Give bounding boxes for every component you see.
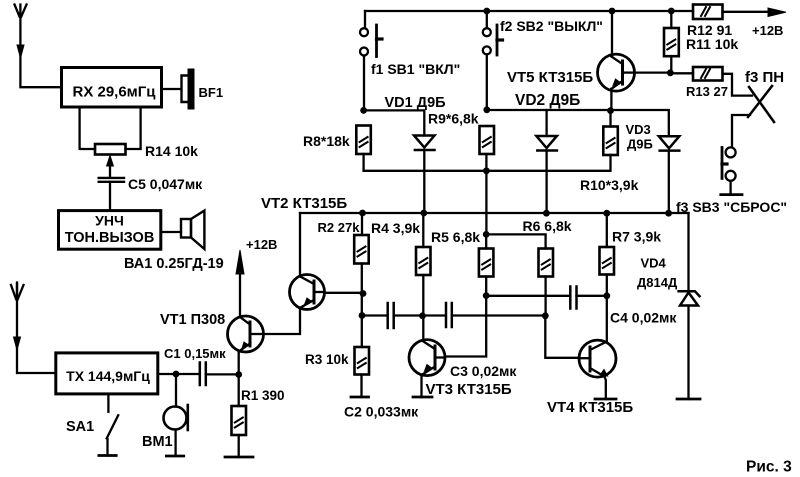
wire rail to R11 (670, 11, 672, 28)
wire VT5 emitter to R10 (609, 111, 611, 127)
resistor R9 (480, 126, 495, 154)
svg-text:R7 3,9k: R7 3,9k (612, 229, 661, 245)
svg-text:VD2 Д9Б: VD2 Д9Б (515, 92, 580, 109)
svg-text:ТХ 144,9мГц: ТХ 144,9мГц (66, 368, 150, 384)
wire R2 top (361, 213, 363, 235)
node VD3 on bus (665, 210, 672, 217)
diode VD1 (414, 136, 435, 151)
rail to SB1 (364, 11, 366, 28)
capacitor C2 (388, 303, 394, 328)
svg-text:f2 SB2 "ВЫКЛ": f2 SB2 "ВЫКЛ" (500, 18, 603, 34)
svg-text:RX 29,6мГц: RX 29,6мГц (72, 84, 156, 101)
wire VT1 base to VT2 (263, 308, 300, 334)
wire VT2 top to +12V bus (299, 213, 301, 276)
antenna WA1 (receiver) (15, 5, 62, 88)
wire R5 down to VT3 base node (485, 234, 487, 295)
push button SB2 (483, 25, 503, 55)
ground (SB3) (721, 193, 742, 196)
resistor R7 (600, 247, 615, 275)
ground (R1) (225, 456, 253, 459)
resistor R1 (232, 406, 247, 435)
node R11/R13 junction (667, 69, 674, 76)
wire R5/R6 crossover (486, 234, 545, 248)
RX receiver box (62, 68, 162, 108)
node R9 on feedback bus (483, 167, 490, 174)
node R1/C1 junction (235, 371, 242, 378)
R14 wiper arrow (107, 156, 114, 178)
svg-text:R9*6,8k: R9*6,8k (428, 111, 479, 127)
ground (VT3) (413, 396, 432, 399)
svg-text:f1 SB1 "ВКЛ": f1 SB1 "ВКЛ" (371, 61, 460, 77)
switch SA1 (107, 394, 119, 456)
resistor R10 (603, 127, 618, 156)
svg-text:VD3: VD3 (626, 122, 651, 137)
svg-text:R5 6,8k: R5 6,8k (431, 229, 480, 245)
ground (VD4) (677, 398, 700, 401)
ground (BM1) (166, 455, 183, 458)
wire R2 to R3 (361, 264, 363, 348)
svg-text:С5 0,047мк: С5 0,047мк (128, 176, 203, 192)
svg-text:С3 0,02мк: С3 0,02мк (450, 363, 517, 379)
wire VT4 emitter to ground (605, 377, 606, 400)
+12V supply arrow (VT1 collector) (236, 250, 244, 317)
earphone BF1 (182, 69, 195, 110)
wire R4 top from bus (422, 213, 424, 247)
node VT5 collector on rail (609, 8, 616, 15)
svg-text:R1 390: R1 390 (241, 388, 285, 403)
node VD1/R4 on bus (420, 210, 427, 217)
node VT2 collector junction (360, 290, 367, 297)
AF amplifier box (УНЧ ТОН.ВЫЗОВ) (59, 211, 161, 250)
wire C4 right (577, 295, 607, 297)
wire VT3 base (445, 296, 486, 357)
resistor R13 (horizontal) (693, 67, 723, 81)
zener diode VD4 (679, 291, 700, 305)
wire VT1 emitter down through R1 (238, 352, 240, 407)
node R8/VD1 junction (360, 107, 367, 114)
svg-text:VT2 КТ315Б: VT2 КТ315Б (261, 195, 347, 212)
svg-text:С2 0,033мк: С2 0,033мк (344, 404, 419, 420)
wire VD1 to bus (423, 150, 425, 213)
svg-text:VT4 КТ315Б: VT4 КТ315Б (547, 399, 633, 416)
wire R8 to feedback bus (362, 154, 364, 171)
wire C4 left (486, 295, 569, 297)
node VT3 collector / cap junction (419, 312, 426, 319)
svg-text:VD4: VD4 (641, 256, 667, 271)
diode VD3 (659, 136, 680, 150)
wire C3 to R6 column (452, 314, 546, 316)
wire RX to BF1 (162, 88, 182, 90)
wire BM1 riser (175, 374, 177, 407)
wire SB3 to ground (729, 181, 731, 195)
capacitor C3 (446, 303, 452, 327)
transistor VT3 (409, 340, 445, 376)
svg-text:Д9Б: Д9Б (627, 137, 653, 152)
transistor VT4 (579, 340, 616, 377)
wire R10 to feedback bus (609, 155, 611, 171)
wire C2 to C3 (394, 314, 446, 316)
node coupling wire junction (359, 312, 366, 319)
wire SB2 down (486, 54, 488, 109)
capacitor C5 (99, 178, 124, 182)
svg-text:R8*18k: R8*18k (303, 133, 350, 149)
node R11 on rail (668, 8, 675, 15)
svg-text:R2 27k: R2 27k (318, 220, 361, 235)
resistor R12 (horizontal) (693, 5, 723, 20)
svg-text:VT3 КТ315Б: VT3 КТ315Б (426, 381, 512, 398)
wire C5 to AF box (109, 182, 111, 211)
top +12V rail (365, 10, 693, 12)
svg-text:ВМ1: ВМ1 (142, 434, 173, 450)
node C4 right junction (603, 292, 610, 299)
wire R7 top from bus (606, 213, 608, 247)
node VT5 emitter junction (607, 107, 614, 114)
wire AF box to BA1 (161, 231, 181, 233)
svg-text:f3 ПН: f3 ПН (745, 69, 784, 86)
diode VD2 (536, 136, 557, 151)
svg-text:BF1: BF1 (199, 85, 224, 100)
wire VD2 top (545, 110, 547, 136)
wire connector to SB3 (732, 115, 750, 147)
svg-text:VT5 КТ315Б: VT5 КТ315Б (507, 69, 593, 86)
svg-text:R3 10k: R3 10k (305, 352, 349, 367)
wire VD3 to bus (668, 151, 670, 214)
svg-text:VT1 П308: VT1 П308 (160, 312, 225, 328)
node VT3 base / C4 junction (483, 292, 490, 299)
wire R11 to node (670, 56, 672, 73)
wire VT5 emitter (610, 89, 612, 111)
+12V rail arrow (768, 8, 786, 17)
svg-text:+12В: +12В (752, 23, 783, 38)
capacitor C4 (570, 287, 576, 309)
wire R3 to ground (360, 375, 362, 398)
resistor R5 (479, 249, 494, 277)
node R6 bottom junction (542, 312, 549, 319)
wire R7 to VT4 collector (606, 275, 608, 342)
svg-text:ТОН.ВЫЗОВ: ТОН.ВЫЗОВ (65, 230, 155, 246)
wire C1 to VT1 emitter column (206, 373, 239, 375)
wire VD2 to bus (545, 151, 547, 214)
node R5/R6 wire junction (483, 231, 490, 238)
microphone BM1 (164, 405, 188, 430)
wire R9 to R5 node (485, 154, 487, 234)
transistor VT5 (598, 54, 635, 91)
resistor R8 (356, 126, 371, 155)
node SB2 on rail (483, 8, 490, 15)
node TX/BM1/C1 junction (173, 371, 180, 378)
connector X (f3) (748, 86, 774, 122)
wire R4 to VT3 collector (422, 275, 424, 341)
wire node to VD1 (364, 110, 425, 135)
wire VT2 collector to R2/R3 column (324, 292, 363, 294)
ground (VT4) (595, 398, 616, 401)
svg-text:УНЧ: УНЧ (95, 213, 124, 229)
wire VT5 base to R11/R13 node (634, 71, 670, 73)
svg-text:R4 3,9k: R4 3,9k (371, 220, 420, 236)
wire SB1 to R8 node (363, 56, 365, 111)
+12V collector bus (300, 212, 689, 214)
svg-text:Рис. 3: Рис. 3 (746, 459, 792, 476)
loudspeaker BA1 (181, 211, 204, 249)
svg-text:VD1 Д9Б: VD1 Д9Б (385, 95, 446, 111)
transistor VT1 (228, 316, 264, 352)
resistor R6 (539, 249, 554, 277)
wire RX right leg to R14 (126, 107, 141, 149)
wire R12 to +12V arrow (723, 11, 771, 13)
svg-text:+12В: +12В (246, 237, 277, 252)
push button SB3 (722, 147, 736, 180)
TX transmitter box (56, 353, 158, 394)
capacitor C1 (200, 363, 206, 386)
resistor R2 (354, 235, 369, 264)
svg-text:С1 0,15мк: С1 0,15мк (164, 346, 226, 361)
ground (SA1) (99, 454, 116, 457)
antenna WA2 (transmitter) (11, 283, 56, 374)
potentiometer R14 (95, 144, 126, 155)
wire VD4 to ground (687, 306, 689, 400)
wire R13 to connector (723, 74, 753, 96)
resistor R11 (664, 28, 679, 56)
wire TX to C1 (158, 373, 199, 375)
node VD2 on bus (543, 210, 550, 217)
svg-text:SA1: SA1 (66, 419, 94, 435)
svg-text:R14 10k: R14 10k (145, 143, 198, 159)
wire VT3 emitter to ground (420, 375, 422, 397)
svg-text:R12 91: R12 91 (687, 22, 732, 38)
wire R1 to ground (238, 435, 240, 457)
resistor R4 (416, 247, 431, 275)
svg-text:С4 0,02мк: С4 0,02мк (610, 310, 677, 326)
wire R6 to VT4 base (545, 277, 579, 358)
node R2 top (359, 210, 366, 217)
node R7 on bus (603, 210, 610, 217)
resistor R3 (355, 347, 370, 375)
transistor VT2 (290, 275, 325, 310)
coupling wire VT2-VT3 (y=315.5) (362, 314, 387, 316)
wire SB2 node to VD3 corner (487, 110, 669, 136)
ground (R3) (351, 396, 369, 399)
rail to SB2 (486, 11, 488, 28)
svg-text:R11 10k: R11 10k (686, 36, 738, 52)
wire RX left leg to R14 (80, 107, 95, 149)
feedback bus (R8-R9-R10) (364, 170, 610, 172)
node R9/VD2 junction (483, 106, 490, 113)
wire BM1 to ground (174, 430, 176, 457)
svg-text:ВА1 0.25ГД-19: ВА1 0.25ГД-19 (124, 256, 224, 272)
wire VT5 collector to rail (611, 11, 613, 57)
svg-text:R6 6,8k: R6 6,8k (523, 218, 572, 234)
wire node to R13 (670, 72, 693, 74)
push button SB1 (360, 25, 382, 57)
svg-text:f3 SB3 "СБРОС": f3 SB3 "СБРОС" (676, 199, 787, 215)
svg-text:R13 27: R13 27 (686, 84, 728, 99)
wire bus corner down to VD4 (687, 213, 689, 291)
svg-text:Д814Д: Д814Д (637, 275, 678, 290)
svg-text:R10*3,9k: R10*3,9k (580, 177, 639, 193)
